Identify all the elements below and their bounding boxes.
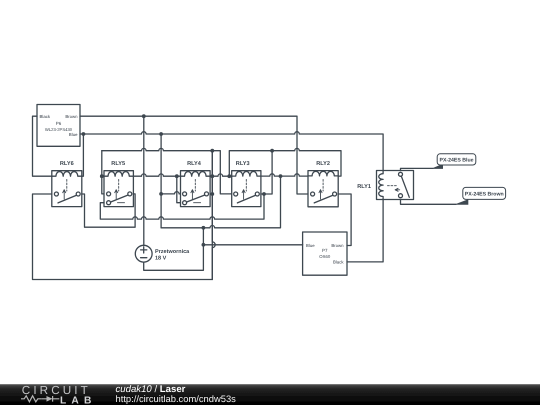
svg-text:Blue: Blue bbox=[69, 132, 78, 137]
svg-text:PX-24ES Brown: PX-24ES Brown bbox=[465, 191, 504, 197]
svg-text:PX-24ES Blue: PX-24ES Blue bbox=[439, 158, 473, 164]
svg-text:OS60: OS60 bbox=[319, 254, 331, 259]
svg-text:Brown: Brown bbox=[331, 243, 344, 248]
svg-text:18 V: 18 V bbox=[155, 256, 167, 262]
svg-text:RLY6: RLY6 bbox=[60, 161, 74, 167]
svg-text:Przetwornica: Przetwornica bbox=[155, 249, 190, 255]
svg-text:RLY5: RLY5 bbox=[111, 161, 125, 167]
svg-text:RLY2: RLY2 bbox=[316, 161, 330, 167]
svg-text:http://circuitlab.com/cndw53s: http://circuitlab.com/cndw53s bbox=[116, 393, 237, 404]
svg-text:P6: P6 bbox=[56, 121, 62, 126]
svg-text:P7: P7 bbox=[322, 248, 328, 253]
svg-text:Black: Black bbox=[333, 259, 344, 264]
svg-text:RLY4: RLY4 bbox=[187, 161, 202, 167]
svg-text:Black: Black bbox=[40, 114, 51, 119]
svg-text:Blue: Blue bbox=[306, 243, 315, 248]
svg-text:LAB: LAB bbox=[60, 395, 97, 405]
svg-text:RLY1: RLY1 bbox=[357, 184, 371, 190]
svg-text:Brown: Brown bbox=[65, 114, 78, 119]
svg-text:RLY3: RLY3 bbox=[236, 161, 250, 167]
